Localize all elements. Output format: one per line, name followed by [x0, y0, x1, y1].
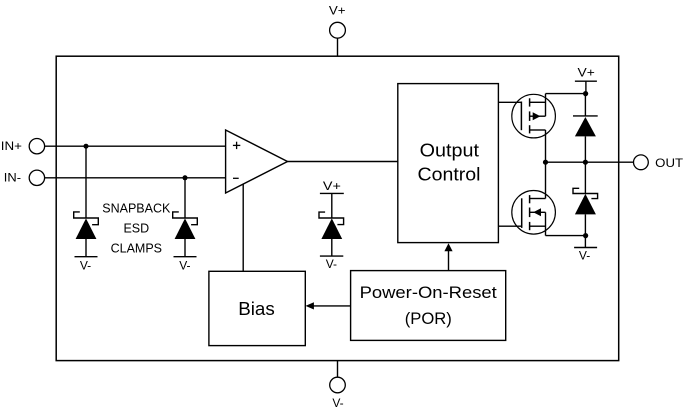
- wire box to V- terminal: [337, 361, 339, 378]
- svg-text:V-: V-: [332, 396, 343, 410]
- junction dot V- node: [583, 233, 588, 238]
- junction dot V+ node: [583, 91, 588, 96]
- transistor Q2 (low-side MOSFET): [498, 162, 555, 235]
- OUT terminal: [634, 155, 684, 170]
- wire POR to Output Control with arrowhead: [444, 243, 452, 270]
- svg-text:IN-: IN-: [4, 170, 21, 184]
- V- rail bottom right: [574, 236, 597, 263]
- svg-text:IN+: IN+: [1, 139, 22, 153]
- wire POR to Bias with arrowhead: [306, 302, 351, 309]
- IN+ terminal: [1, 139, 45, 154]
- svg-text:OUT: OUT: [655, 156, 684, 170]
- svg-text:Power-On-Reset: Power-On-Reset: [360, 283, 498, 302]
- junction dot output/diode node: [583, 160, 588, 165]
- transistor Q1 (high-side MOSFET): [498, 94, 555, 163]
- op-amp U1: [226, 130, 288, 193]
- ESD clamp D2 on IN-: [173, 178, 198, 273]
- V+ supply terminal: [329, 4, 346, 39]
- svg-text:Output: Output: [420, 140, 479, 160]
- svg-text:(POR): (POR): [405, 309, 452, 328]
- svg-text:ESD: ESD: [123, 221, 149, 235]
- junction dot IN+ node: [84, 144, 89, 149]
- wire output node to OUT terminal: [546, 161, 634, 163]
- supply clamp D3: [319, 179, 344, 271]
- POR block: [351, 271, 506, 341]
- V+ rail label top right: [575, 65, 597, 93]
- wire op-amp to Bias: [242, 184, 244, 271]
- svg-text:V-: V-: [80, 259, 91, 273]
- svg-text:V-: V-: [579, 249, 590, 263]
- svg-text:Bias: Bias: [238, 298, 275, 319]
- snapback clamp D5 output to V-: [573, 162, 598, 235]
- svg-text:V-: V-: [326, 257, 337, 271]
- wire IN+ to op-amp: [45, 145, 226, 147]
- svg-text:V+: V+: [329, 4, 346, 18]
- wire Q1 source to V+ node: [546, 93, 586, 95]
- IN- terminal: [4, 170, 45, 185]
- svg-text:V-: V-: [179, 259, 190, 273]
- diode D4 output to V+: [573, 94, 598, 163]
- svg-text:V+: V+: [323, 179, 341, 193]
- label SNAPBACK ESD CLAMPS: [102, 202, 171, 256]
- wire IN- to op-amp: [45, 177, 226, 179]
- ESD clamp D1 on IN+: [74, 146, 99, 272]
- Bias block: [209, 271, 305, 345]
- junction dot output node at Q1/Q2: [543, 160, 548, 165]
- svg-text:SNAPBACK: SNAPBACK: [102, 202, 171, 216]
- svg-text:Control: Control: [418, 164, 481, 184]
- V- supply terminal: [330, 377, 346, 410]
- junction dot IN- node: [183, 175, 188, 180]
- IC boundary box: [56, 56, 619, 360]
- wire V+ terminal to box: [337, 38, 339, 56]
- wire op-amp output to Output Control: [288, 161, 399, 163]
- Output Control block: [398, 84, 499, 243]
- svg-text:V+: V+: [578, 65, 595, 79]
- wire Q2 source to V- node: [546, 235, 586, 237]
- svg-text:CLAMPS: CLAMPS: [111, 241, 162, 255]
